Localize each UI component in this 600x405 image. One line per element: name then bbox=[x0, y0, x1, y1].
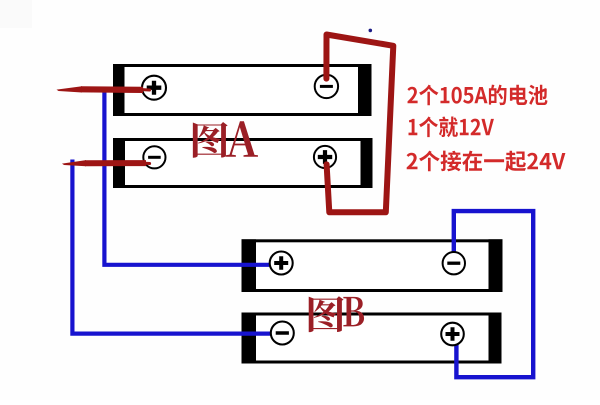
battery B2 body bbox=[243, 314, 500, 362]
label: 图A bbox=[193, 122, 228, 158]
wire red series link A1- to A2+ bbox=[326, 35, 393, 213]
battery B1 positive terminal bbox=[270, 252, 293, 275]
battery A2 body bbox=[115, 140, 372, 187]
battery A1 negative terminal bbox=[315, 75, 338, 98]
battery A1 body bbox=[115, 66, 371, 115]
label: 1个就12V bbox=[409, 117, 494, 138]
battery A2 negative terminal bbox=[143, 146, 165, 168]
battery A1 positive terminal bbox=[142, 76, 166, 100]
node blue dot bbox=[369, 29, 373, 33]
battery A2 positive terminal bbox=[314, 146, 336, 168]
label: 2个105A的电池 bbox=[407, 85, 547, 106]
battery B1 negative terminal bbox=[443, 252, 465, 274]
wire blue parallel link B1- to B2+ bbox=[454, 211, 533, 377]
battery B2 positive terminal bbox=[441, 323, 464, 346]
label: 图B bbox=[309, 296, 344, 332]
wire red lead to A1+ bbox=[57, 86, 83, 92]
wire blue A1+ to B1+ bbox=[104, 88, 270, 265]
wire blue A2- to B2- bbox=[72, 160, 271, 334]
battery B1 body bbox=[243, 241, 501, 291]
wire red lead to A2- bbox=[62, 160, 86, 166]
label: 2个接在一起24V bbox=[407, 151, 566, 172]
battery B2 negative terminal bbox=[271, 322, 294, 345]
